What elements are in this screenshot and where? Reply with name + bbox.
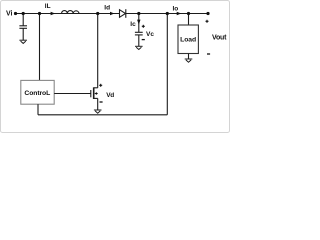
svg-text:Vout: Vout <box>212 35 227 42</box>
svg-text:ControL: ControL <box>24 90 50 97</box>
svg-text:Ic: Ic <box>130 21 136 28</box>
svg-text:IL: IL <box>45 3 51 10</box>
svg-text:Io: Io <box>173 5 179 12</box>
svg-text:Id: Id <box>104 4 110 11</box>
svg-text:Load: Load <box>180 37 196 44</box>
svg-text:Vi: Vi <box>6 10 13 17</box>
svg-text:Vd: Vd <box>106 92 114 99</box>
svg-text:Vc: Vc <box>146 31 154 38</box>
